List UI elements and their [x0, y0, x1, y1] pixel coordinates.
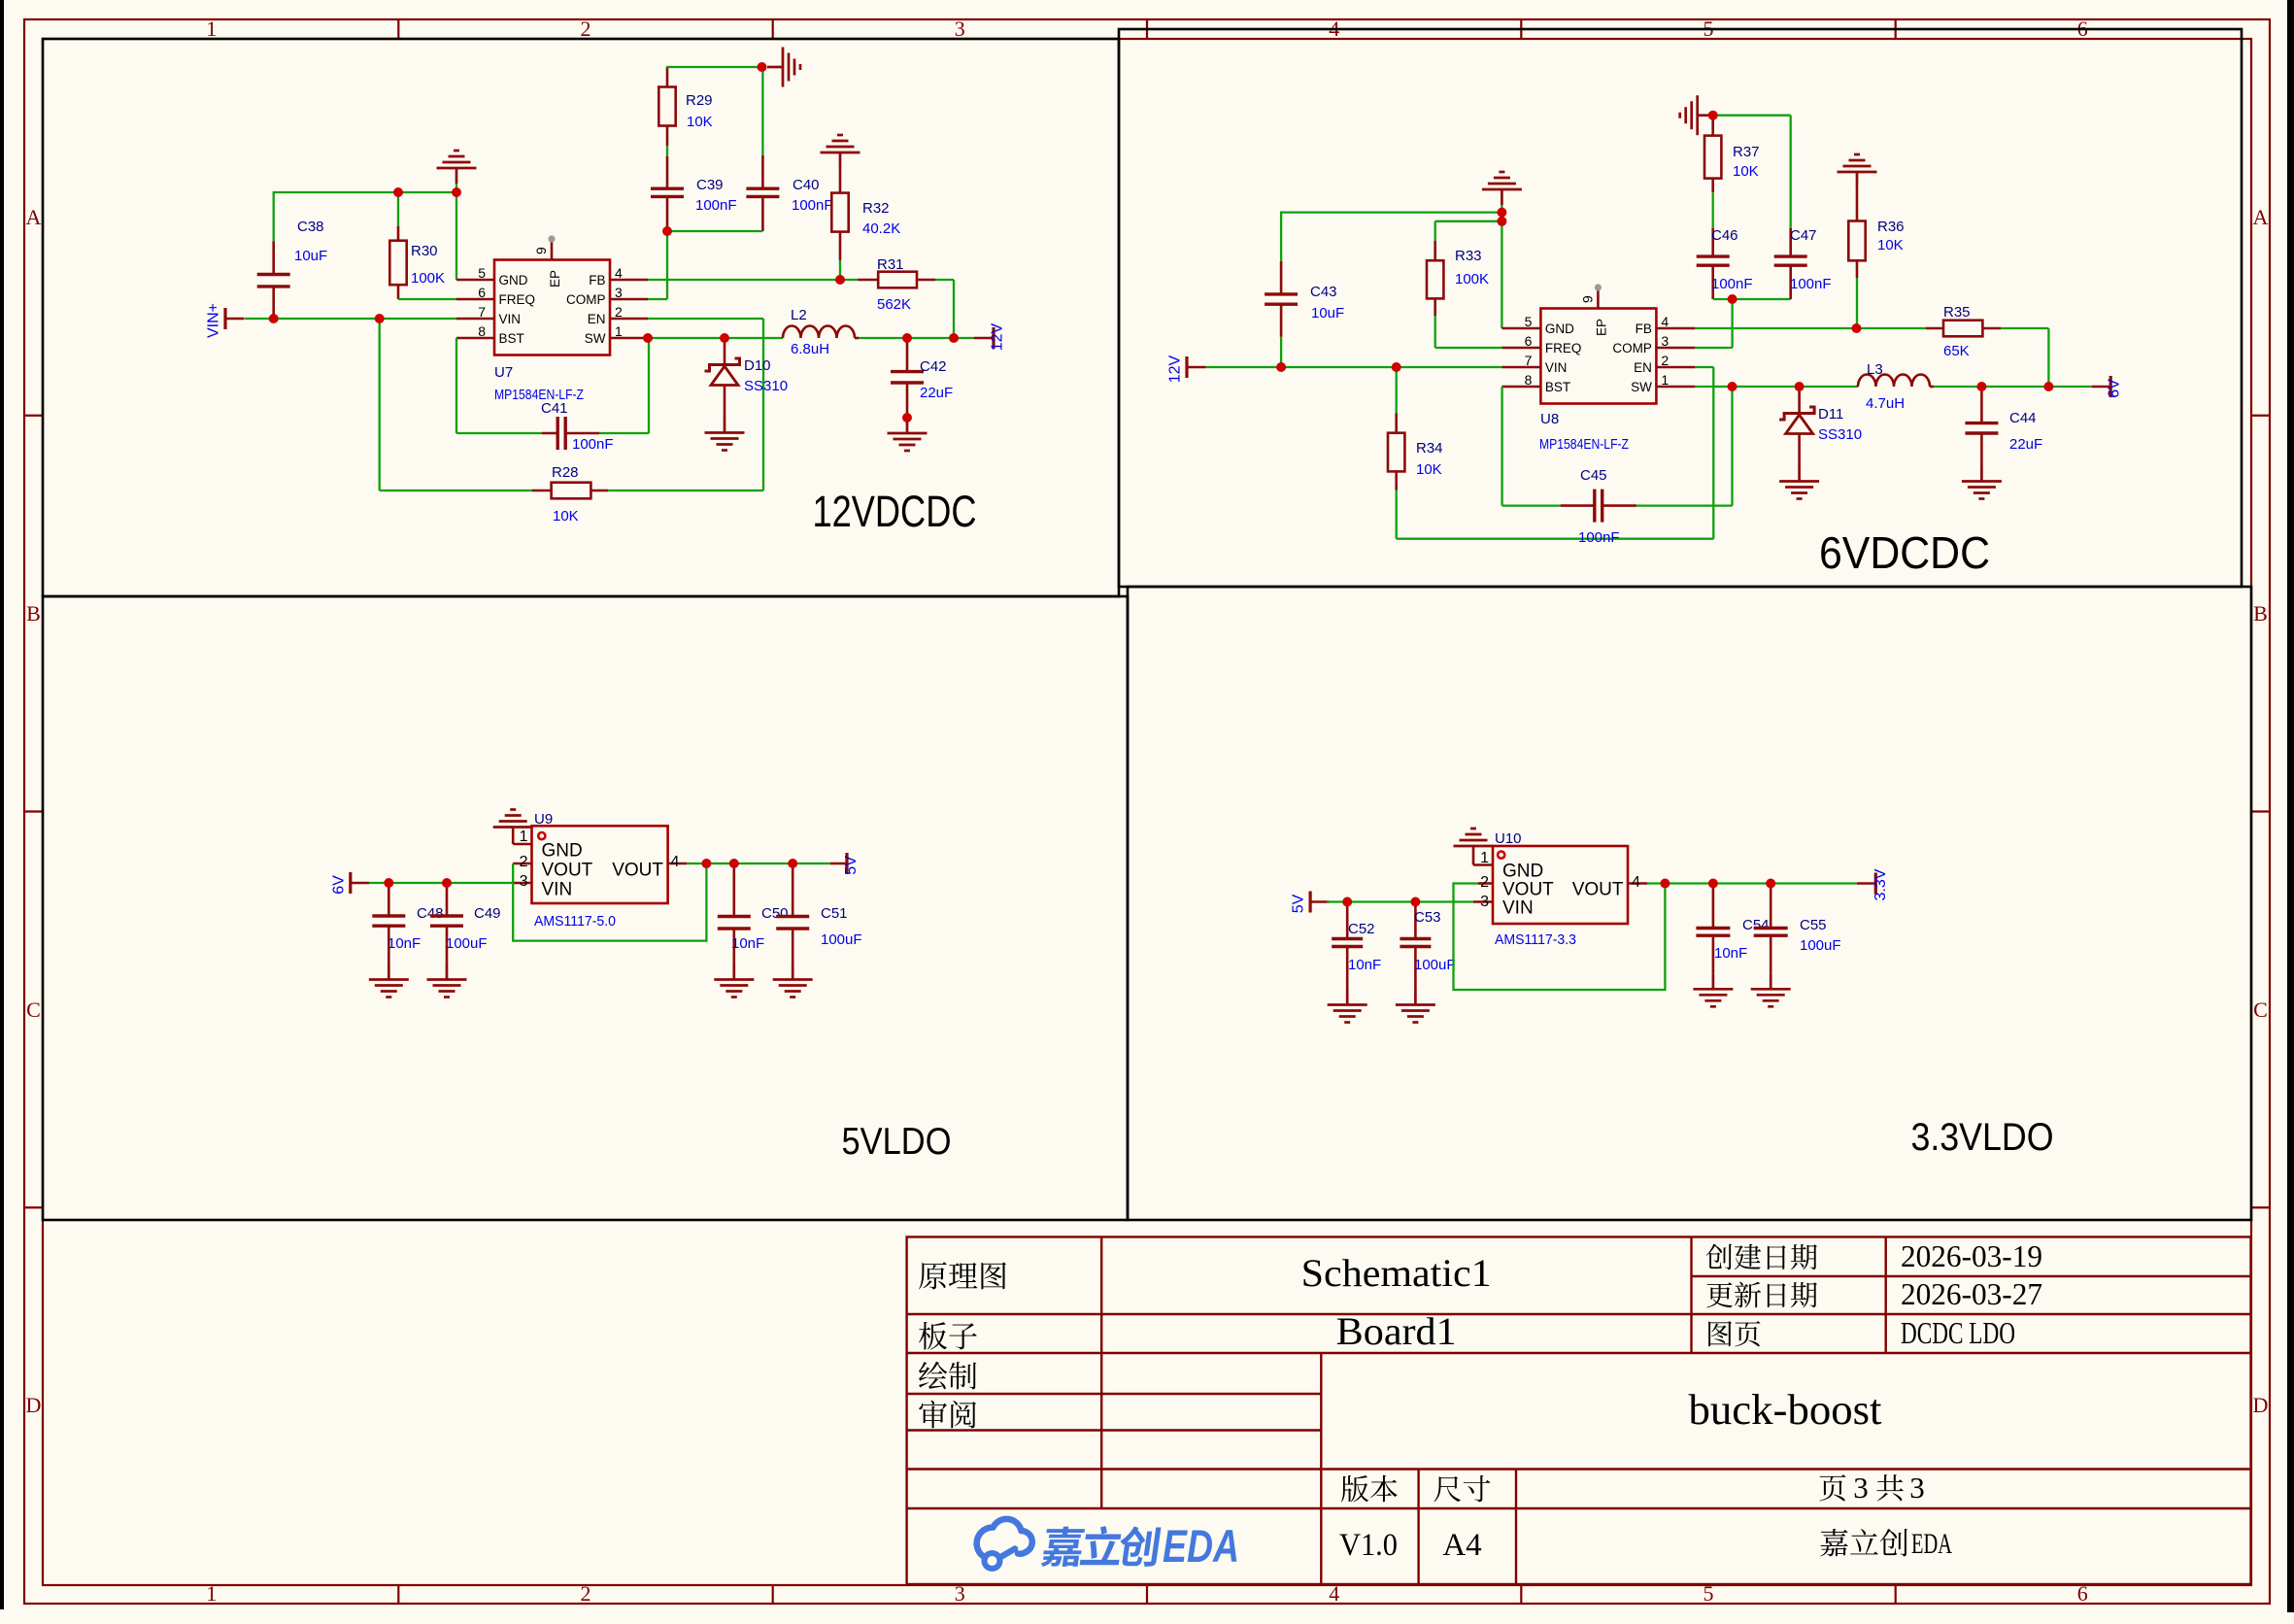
svg-text:C54: C54 [1742, 917, 1770, 933]
left ruler ticks [24, 415, 43, 417]
svg-text:12V: 12V [1167, 355, 1184, 383]
wire VOUT loop (pin2 to output) [513, 863, 706, 941]
svg-text:6.8uH: 6.8uH [791, 341, 829, 357]
capacitor C51 [792, 863, 794, 917]
svg-text:FB: FB [1636, 321, 1652, 336]
svg-text:10uF: 10uF [294, 248, 327, 264]
3.3V output rail [1647, 882, 1857, 884]
svg-text:R30: R30 [411, 243, 438, 259]
svg-text:100nF: 100nF [1711, 276, 1753, 292]
svg-text:VIN: VIN [1502, 898, 1534, 919]
svg-text:2: 2 [1661, 353, 1669, 368]
node C42 junction [902, 333, 912, 343]
svg-text:6: 6 [1525, 333, 1533, 349]
node R29/C40 GND junction [758, 62, 767, 72]
net port 5V (input) [1308, 892, 1311, 913]
svg-text:C53: C53 [1414, 909, 1441, 926]
node C45 branch junction [1728, 382, 1737, 391]
label 更新日期 [1706, 1282, 1733, 1307]
svg-text:VOUT: VOUT [1572, 880, 1624, 900]
svg-text:BST: BST [499, 331, 524, 346]
capacitor C45 (BST bootstrap) [1501, 387, 1502, 506]
svg-text:6V: 6V [330, 875, 347, 895]
svg-text:5: 5 [478, 265, 486, 281]
SW output rail [648, 337, 783, 339]
section frame 3.3VLDO [1128, 587, 2251, 1220]
svg-text:R34: R34 [1416, 440, 1443, 457]
svg-text:3.3V: 3.3V [1872, 868, 1889, 900]
resistor R35 [1926, 327, 1943, 330]
svg-text:2026-03-27: 2026-03-27 [1901, 1276, 2042, 1311]
svg-text:1: 1 [1661, 372, 1669, 388]
node R31 rail junction [949, 333, 959, 343]
label 审阅 [919, 1401, 947, 1429]
svg-text:3: 3 [1661, 333, 1669, 349]
node C54 junction [1708, 879, 1718, 889]
label 尺寸 [1434, 1476, 1461, 1502]
svg-text:L3: L3 [1867, 361, 1883, 378]
svg-text:VIN: VIN [499, 312, 522, 326]
capacitor C46 [1697, 254, 1730, 257]
resistor R30 [397, 192, 399, 226]
capacitor C42 [906, 338, 909, 372]
wire R29 to C39 [666, 146, 668, 156]
svg-text:10K: 10K [1877, 237, 1904, 254]
svg-text:C44: C44 [2009, 410, 2037, 426]
svg-text:VIN+: VIN+ [206, 303, 222, 338]
svg-text:C51: C51 [821, 905, 848, 922]
node VIN+/C38 junction [269, 314, 279, 323]
ground (C53) [1396, 990, 1435, 1023]
node C48 junction [384, 878, 393, 888]
resistor R31 [859, 279, 879, 282]
svg-text:V1.0: V1.0 [1339, 1528, 1398, 1563]
svg-text:3: 3 [955, 17, 965, 41]
svg-text:SW: SW [1631, 380, 1652, 394]
svg-text:FB: FB [589, 273, 605, 288]
EN net wire [648, 318, 763, 320]
svg-text:100uF: 100uF [446, 935, 488, 952]
node C43 junction [1276, 362, 1286, 372]
capacitor C50 [732, 863, 735, 917]
svg-text:D: D [2253, 1393, 2269, 1417]
ground (C44) [1962, 466, 2002, 499]
node GND rail junction [452, 187, 461, 197]
svg-text:U10: U10 [1495, 830, 1522, 847]
svg-text:R35: R35 [1943, 304, 1971, 321]
wire 12V to U8.VIN [1206, 366, 1502, 368]
U8 pin 9 EP [1597, 289, 1600, 309]
svg-text:A: A [26, 205, 42, 229]
node C51 junction [788, 859, 797, 868]
node C52 junction [1342, 897, 1352, 907]
svg-text:6VDCDC: 6VDCDC [1819, 527, 1990, 578]
ground (C50) [714, 964, 754, 998]
svg-text:8: 8 [478, 323, 486, 339]
node R37/C47 GND junction [1708, 111, 1718, 120]
node FB/R32 junction [835, 275, 845, 285]
svg-text:VIN: VIN [1545, 360, 1568, 375]
node C44 junction [1976, 382, 1986, 391]
svg-text:7: 7 [1525, 353, 1533, 368]
svg-text:10nF: 10nF [731, 935, 764, 952]
svg-text:1: 1 [1480, 850, 1489, 866]
SW output rail [1695, 386, 1858, 388]
svg-text:C50: C50 [761, 905, 789, 922]
capacitor C47 [1713, 115, 1791, 117]
node loop junction [1660, 879, 1670, 889]
U9 pin4 stub [668, 863, 687, 865]
U9 pin2 stub [513, 863, 531, 865]
U10 pin1 GND elbow + ground [1473, 863, 1493, 866]
wire down to U8 pin5 [1501, 213, 1502, 328]
ground (C49) [427, 964, 467, 998]
ground (C42) [888, 418, 928, 451]
resistor R37 [1711, 116, 1714, 136]
IC U10 AMS1117-3.3 [1493, 846, 1628, 924]
svg-text:C: C [26, 998, 41, 1022]
label 嘉立创EDA (vendor cell) [1820, 1529, 1847, 1556]
svg-text:100nF: 100nF [572, 436, 614, 453]
capacitor C39 [651, 186, 684, 189]
svg-text:5: 5 [1525, 314, 1533, 329]
svg-text:2: 2 [1480, 874, 1489, 891]
ground (C54) [1693, 973, 1733, 1006]
resistor R34 [1396, 367, 1398, 413]
U9 pin1 indicator circle [538, 832, 545, 839]
svg-text:7: 7 [478, 304, 486, 320]
svg-text:GND: GND [1545, 321, 1574, 336]
inductor L3 [1858, 375, 1930, 387]
capacitor C41 (BST bootstrap) [455, 338, 457, 433]
svg-text:1: 1 [615, 323, 623, 339]
net port 3.3V [1857, 882, 1876, 885]
node COMP branch junction [1728, 294, 1737, 304]
title block grid lines [1692, 1275, 2251, 1277]
svg-text:12VDCDC: 12VDCDC [813, 487, 977, 536]
title block outline [907, 1237, 2251, 1585]
capacitor C48 [388, 883, 390, 916]
capacitor C43 [1280, 337, 1282, 367]
capacitor C53 [1414, 902, 1417, 939]
svg-text:5VLDO: 5VLDO [842, 1121, 952, 1163]
svg-text:GND: GND [542, 841, 583, 862]
svg-text:C48: C48 [417, 905, 444, 922]
svg-text:MP1584EN-LF-Z: MP1584EN-LF-Z [494, 387, 584, 403]
svg-text:R33: R33 [1455, 248, 1482, 264]
svg-text:DCDC LDO: DCDC LDO [1901, 1315, 2015, 1350]
svg-text:C43: C43 [1310, 284, 1337, 300]
svg-text:AMS1117-3.3: AMS1117-3.3 [1495, 931, 1576, 948]
left screen edge strip [0, 0, 4, 1609]
node C53 junction [1410, 897, 1420, 907]
node C39/C40/COMP junction [662, 226, 672, 236]
resistor R33 [1435, 220, 1502, 222]
node R34 branch junction [1392, 362, 1401, 372]
node SW pin junction [643, 333, 653, 343]
svg-text:12V: 12V [990, 322, 1006, 351]
ground (rotated, right of node) [767, 48, 800, 87]
svg-text:10K: 10K [687, 114, 713, 130]
net port 6V [2092, 386, 2111, 389]
capacitor C52 [1346, 902, 1349, 939]
svg-text:4: 4 [615, 265, 623, 281]
net port 5V [830, 863, 847, 865]
node D11 junction [1795, 382, 1805, 391]
svg-text:EN: EN [1634, 360, 1652, 375]
wire R34 bottom to EN [1397, 538, 1714, 540]
net port 12V [974, 337, 994, 340]
svg-text:4: 4 [671, 854, 680, 870]
wire R30 bottom to U7.FREQ [398, 298, 456, 300]
top ruler ticks [397, 19, 399, 39]
svg-text:B: B [2253, 601, 2268, 626]
diode D11 SS310 [1798, 387, 1801, 414]
svg-text:10K: 10K [553, 508, 579, 524]
U7 pin 9 EP [551, 241, 554, 260]
svg-text:3: 3 [520, 873, 528, 890]
inductor L2 [783, 326, 855, 338]
U9 pin3 stub [513, 882, 531, 885]
ground (left of R37) [1680, 95, 1713, 135]
net port VIN+ [223, 308, 226, 329]
wire C46/C47 bottoms [1713, 298, 1791, 300]
label 页 3 共 3 [1819, 1474, 1845, 1501]
resistor R32 [821, 135, 860, 168]
svg-text:VIN: VIN [542, 880, 573, 900]
svg-text:D: D [26, 1393, 42, 1417]
svg-text:FREQ: FREQ [1545, 341, 1582, 355]
svg-text:10K: 10K [1416, 461, 1442, 478]
FB net wire [1695, 327, 1926, 329]
svg-text:B: B [26, 601, 41, 626]
net port 12V (input) [1185, 356, 1188, 378]
svg-text:U8: U8 [1540, 411, 1559, 427]
svg-text:R32: R32 [862, 200, 890, 217]
ground (D10 anode) [705, 418, 745, 451]
svg-text:R28: R28 [552, 464, 579, 481]
capacitor C49 [446, 883, 449, 916]
diode D10 SS310 [724, 338, 726, 365]
svg-text:R31: R31 [877, 256, 904, 273]
ground (C48) [369, 964, 409, 998]
capacitor C40 [761, 67, 763, 155]
wire VIN+ to U7.VIN [245, 318, 456, 320]
svg-text:4.7uH: 4.7uH [1866, 395, 1905, 412]
svg-text:10nF: 10nF [1714, 945, 1747, 962]
svg-text:A: A [2253, 205, 2269, 229]
svg-text:6V: 6V [2107, 379, 2123, 398]
svg-text:D11: D11 [1818, 406, 1843, 423]
svg-text:3: 3 [615, 285, 623, 300]
wire GND rail down to U7 pin5 [455, 192, 457, 280]
svg-text:100K: 100K [1455, 271, 1489, 288]
svg-text:2: 2 [581, 1581, 591, 1606]
node FB/R36 junction [1852, 323, 1862, 333]
svg-text:C45: C45 [1580, 467, 1607, 484]
svg-text:R37: R37 [1733, 144, 1760, 160]
ground (above U8.GND rail) [1501, 205, 1502, 213]
svg-text:100uF: 100uF [821, 931, 862, 948]
wire R31 to 12V rail [935, 279, 954, 281]
svg-text:GND: GND [499, 273, 528, 288]
capacitor C55 [1770, 884, 1772, 929]
FB net wire [648, 279, 859, 281]
svg-text:GND: GND [1502, 862, 1543, 882]
svg-text:EDA: EDA [1163, 1520, 1239, 1572]
node GND rail junction 1 [1497, 208, 1506, 218]
svg-text:9: 9 [1579, 295, 1595, 303]
svg-text:R36: R36 [1877, 219, 1905, 235]
U10 pin1 indicator circle [1498, 852, 1504, 859]
svg-text:C39: C39 [696, 177, 724, 193]
svg-text:C55: C55 [1800, 917, 1827, 933]
svg-text:C47: C47 [1790, 227, 1817, 244]
node D10 junction [720, 333, 729, 343]
ground (C52) [1328, 990, 1367, 1023]
svg-text:EN: EN [588, 312, 606, 326]
svg-text:buck-boost: buck-boost [1689, 1386, 1882, 1434]
svg-text:1: 1 [520, 829, 528, 845]
svg-text:MP1584EN-LF-Z: MP1584EN-LF-Z [1539, 436, 1629, 453]
svg-text:VOUT: VOUT [612, 861, 663, 881]
svg-text:U7: U7 [494, 364, 513, 381]
U10 pin2 stub [1478, 882, 1493, 885]
node C49 junction [442, 878, 452, 888]
svg-text:22uF: 22uF [2009, 436, 2042, 453]
label 板子 [919, 1322, 947, 1350]
svg-text:C41: C41 [541, 400, 568, 417]
U10 pin4 stub [1628, 882, 1647, 885]
svg-text:COMP: COMP [566, 292, 606, 307]
svg-text:3.3VLDO: 3.3VLDO [1911, 1116, 2054, 1159]
right screen edge strip [2287, 0, 2294, 1612]
logo JLCEDA text 嘉立创 [1040, 1527, 1085, 1567]
svg-text:65K: 65K [1943, 343, 1970, 359]
svg-text:D10: D10 [744, 357, 771, 374]
svg-text:100nF: 100nF [1790, 276, 1832, 292]
svg-text:A4: A4 [1442, 1528, 1481, 1563]
svg-text:40.2K: 40.2K [862, 220, 900, 237]
U10 pin3 stub [1473, 900, 1493, 903]
svg-text:C40: C40 [793, 177, 820, 193]
IC U7 MP1584EN-LF-Z [494, 260, 610, 355]
svg-text:C42: C42 [920, 358, 947, 375]
GND top rail [1280, 213, 1282, 214]
ground (D11 anode) [1779, 466, 1819, 499]
wire 5V to U10.VIN [1327, 900, 1473, 902]
node C50 junction [729, 859, 739, 868]
svg-text:6: 6 [478, 285, 486, 300]
svg-text:EDA: EDA [1911, 1528, 1952, 1560]
section frame 5VLDO [43, 596, 1128, 1220]
right ruler ticks [2251, 415, 2270, 417]
svg-text:100uF: 100uF [1414, 957, 1456, 973]
node C42 ground attach [902, 413, 912, 423]
svg-text:8: 8 [1525, 372, 1533, 388]
svg-text:SW: SW [585, 331, 606, 346]
label 原理图 [919, 1262, 947, 1289]
svg-text:COMP: COMP [1612, 341, 1652, 355]
node GND rail junction 2 [1497, 217, 1506, 226]
wire C39/C40 bottoms [667, 230, 762, 232]
IC U9 AMS1117-5.0 [532, 826, 668, 903]
resistor R36 [1838, 154, 1877, 187]
node R30 top junction [393, 187, 403, 197]
wire VOUT loop (pin2 to output) [1454, 884, 1666, 991]
svg-text:Schematic1: Schematic1 [1301, 1251, 1492, 1295]
svg-text:EP: EP [548, 270, 562, 288]
svg-text:1: 1 [206, 17, 217, 41]
IC U8 MP1584EN-LF-Z [1540, 309, 1656, 404]
node C55 junction [1766, 879, 1775, 889]
svg-text:100nF: 100nF [792, 197, 833, 214]
svg-text:9: 9 [533, 247, 549, 254]
svg-text:2: 2 [581, 17, 591, 41]
svg-text:SS310: SS310 [744, 378, 788, 394]
node loop junction [701, 859, 711, 868]
bottom ruler ticks [397, 1585, 399, 1604]
svg-text:1: 1 [206, 1581, 217, 1606]
svg-text:2: 2 [615, 304, 623, 320]
ground (C51) [773, 964, 813, 998]
svg-text:EP: EP [1594, 319, 1608, 336]
wire R29 top rail [666, 66, 762, 68]
svg-text:VOUT: VOUT [1502, 880, 1554, 900]
label 版本 [1341, 1475, 1368, 1503]
5V output rail [687, 863, 830, 864]
svg-text:5V: 5V [843, 856, 860, 875]
svg-text:VOUT: VOUT [542, 861, 593, 881]
svg-text:C: C [2253, 998, 2268, 1022]
svg-text:3: 3 [1909, 1471, 1925, 1505]
node VIN+/R28 branch junction [375, 314, 385, 323]
logo JLCEDA cloud icon [977, 1519, 1032, 1569]
label 创建日期 [1706, 1244, 1733, 1270]
svg-text:C46: C46 [1711, 227, 1738, 244]
label 图页 [1708, 1321, 1732, 1346]
svg-text:100nF: 100nF [695, 197, 737, 214]
svg-text:AMS1117-5.0: AMS1117-5.0 [534, 913, 616, 930]
svg-text:3: 3 [1480, 894, 1489, 910]
section frame 12VDCDC [43, 39, 1119, 596]
svg-text:4: 4 [1632, 874, 1640, 891]
svg-text:Board1: Board1 [1336, 1309, 1457, 1353]
section frame 6VDCDC [1119, 29, 2242, 587]
svg-text:C49: C49 [474, 905, 501, 922]
label 绘制 [919, 1362, 947, 1390]
svg-text:100K: 100K [411, 270, 445, 287]
svg-text:10K: 10K [1733, 163, 1759, 180]
resistor R28 [379, 319, 381, 491]
svg-text:22uF: 22uF [920, 385, 953, 401]
node R35 rail junction [2043, 382, 2053, 391]
svg-text:10nF: 10nF [1348, 957, 1381, 973]
svg-text:5V: 5V [1291, 894, 1307, 913]
svg-text:BST: BST [1545, 380, 1570, 394]
svg-text:SS310: SS310 [1818, 426, 1862, 443]
wire junction down to U7.COMP [666, 231, 668, 299]
svg-text:2: 2 [520, 854, 528, 870]
capacitor C44 [1980, 387, 1983, 423]
net port 6V (input) [349, 872, 352, 894]
svg-text:100uF: 100uF [1800, 937, 1841, 954]
svg-text:4: 4 [1661, 314, 1669, 329]
svg-text:3: 3 [1853, 1471, 1869, 1505]
svg-text:562K: 562K [877, 296, 911, 313]
ground (C55) [1751, 973, 1791, 1006]
svg-text:10uF: 10uF [1311, 305, 1344, 321]
